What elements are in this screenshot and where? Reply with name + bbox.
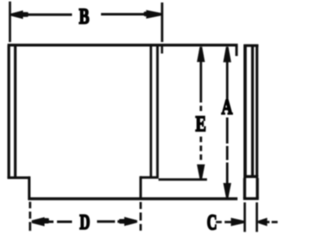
end view left edge bbox=[244, 45, 247, 177]
dimension D extension line right (dashed) bbox=[140, 202, 142, 209]
dimension E bottom arrow bbox=[197, 164, 205, 178]
body right wall inner line bbox=[150, 46, 152, 178]
dimension A line lower bbox=[226, 118, 228, 144]
svg-text:C: C bbox=[207, 209, 217, 234]
end view foot left wall bbox=[243, 178, 246, 198]
dimension A top arrow bbox=[223, 47, 231, 62]
dimension B line left segment bbox=[21, 13, 72, 16]
svg-text:B: B bbox=[79, 3, 90, 28]
svg-text:A: A bbox=[222, 95, 234, 119]
dimension C line/arrow left (pointing right) bbox=[225, 221, 232, 223]
svg-text:E: E bbox=[196, 111, 207, 136]
body right wall outer line bbox=[156, 46, 159, 178]
dimension D line right segment bbox=[97, 220, 115, 223]
right step vertical bbox=[139, 176, 142, 199]
bottom left ledge bbox=[7, 176, 30, 179]
dimension C extension line left bbox=[244, 202, 246, 232]
end view foot bottom edge bbox=[243, 197, 259, 200]
dimension A line upper bbox=[226, 60, 228, 100]
dimension E top arrow bbox=[197, 47, 205, 62]
dimension B line right segment bbox=[101, 13, 147, 16]
end view foot right wall bbox=[256, 178, 259, 198]
left step vertical bbox=[28, 176, 31, 199]
body left wall inner line bbox=[14, 46, 17, 179]
svg-text:D: D bbox=[80, 210, 90, 234]
end view right edge bbox=[256, 45, 259, 177]
body top edge bbox=[8, 44, 238, 47]
top edge right stub bbox=[235, 46, 238, 56]
dimension C dash left bbox=[216, 221, 222, 223]
dimension A bottom arrow bbox=[223, 183, 231, 198]
end view top cap bbox=[244, 44, 259, 47]
dimension D extension line left (dashed) bbox=[29, 202, 31, 209]
dimension C dash right bbox=[272, 221, 278, 223]
dimension B arrow right bbox=[146, 10, 161, 19]
body bottom edge (extended right for A) bbox=[28, 197, 238, 200]
end view inner line bbox=[251, 45, 254, 177]
dimension B extension line left bbox=[9, 2, 11, 43]
dimension B arrow left bbox=[11, 10, 23, 19]
dimension C arrow right (pointing left) bbox=[258, 218, 267, 226]
dimension E line lower (dashed) bbox=[200, 137, 202, 143]
body left wall outer line bbox=[7, 45, 10, 178]
end view crossbar bbox=[244, 175, 259, 178]
dimension C extension line right bbox=[256, 202, 258, 232]
dimension D arrow left bbox=[32, 217, 45, 226]
dimension D arrow right bbox=[124, 217, 137, 226]
E extension line (step level, extended right) bbox=[159, 178, 208, 180]
bottom right ledge bbox=[140, 176, 159, 179]
dimension B extension line right bbox=[161, 3, 163, 43]
dimension D line left segment bbox=[47, 221, 54, 224]
dimension E line upper bbox=[200, 59, 202, 103]
